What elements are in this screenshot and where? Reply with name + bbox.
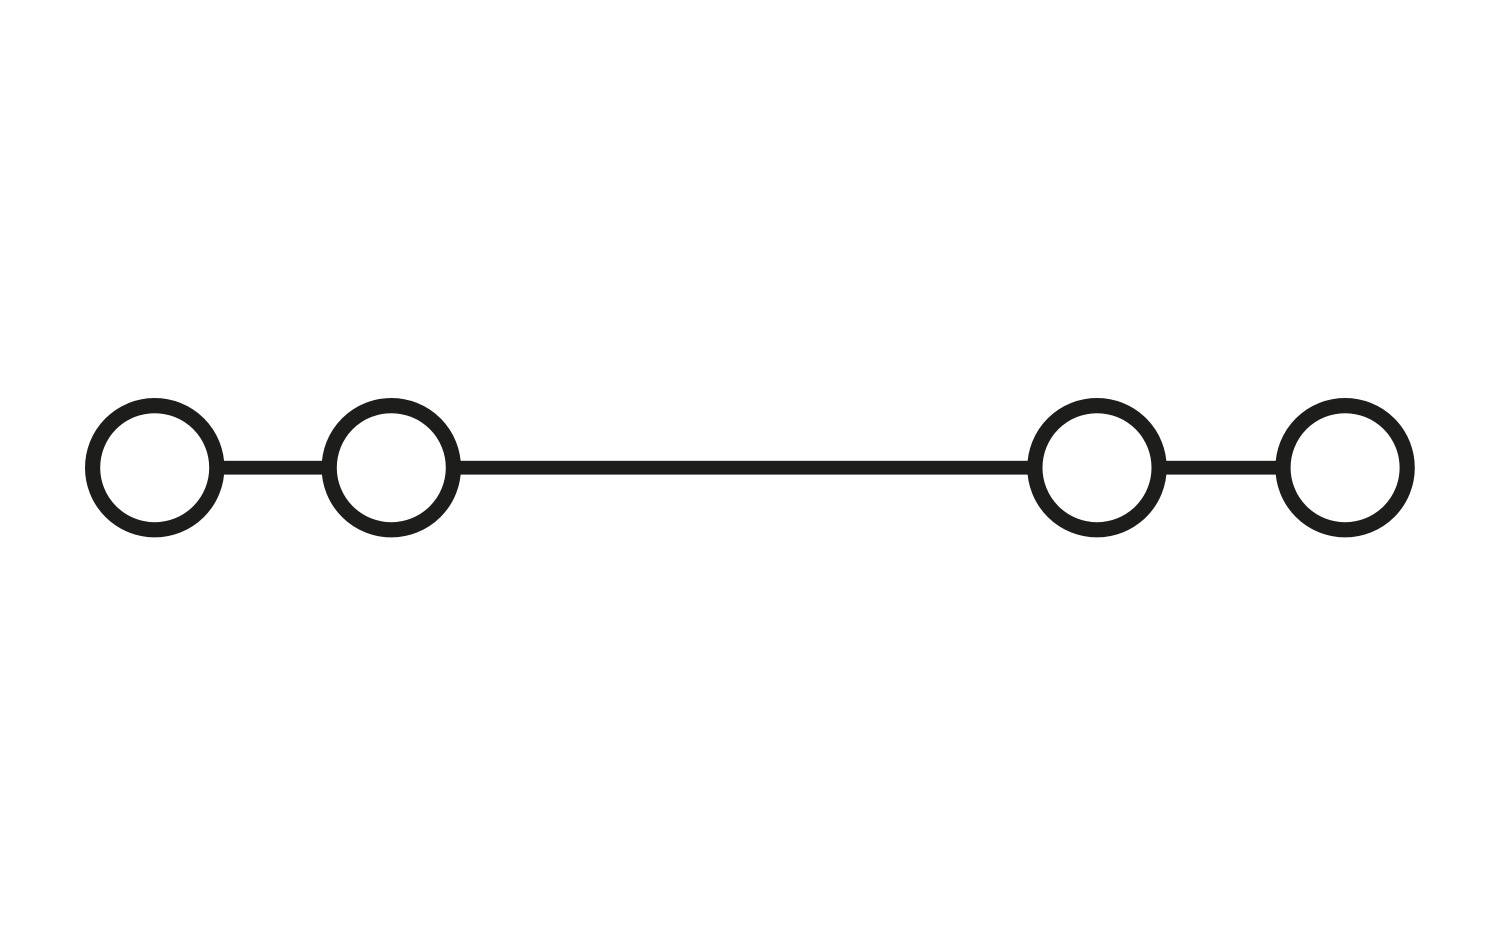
wire: terminal 1 to terminal 2: [220, 461, 328, 475]
wire: terminal 2 to terminal 3 (bus bar): [455, 461, 1033, 475]
terminal clamp point 3: [1035, 406, 1159, 530]
terminal clamp point 2: [329, 406, 453, 530]
terminal clamp point 1: [93, 406, 217, 530]
wire: terminal 3 to terminal 4: [1160, 461, 1282, 475]
terminal clamp point 4: [1283, 406, 1407, 530]
